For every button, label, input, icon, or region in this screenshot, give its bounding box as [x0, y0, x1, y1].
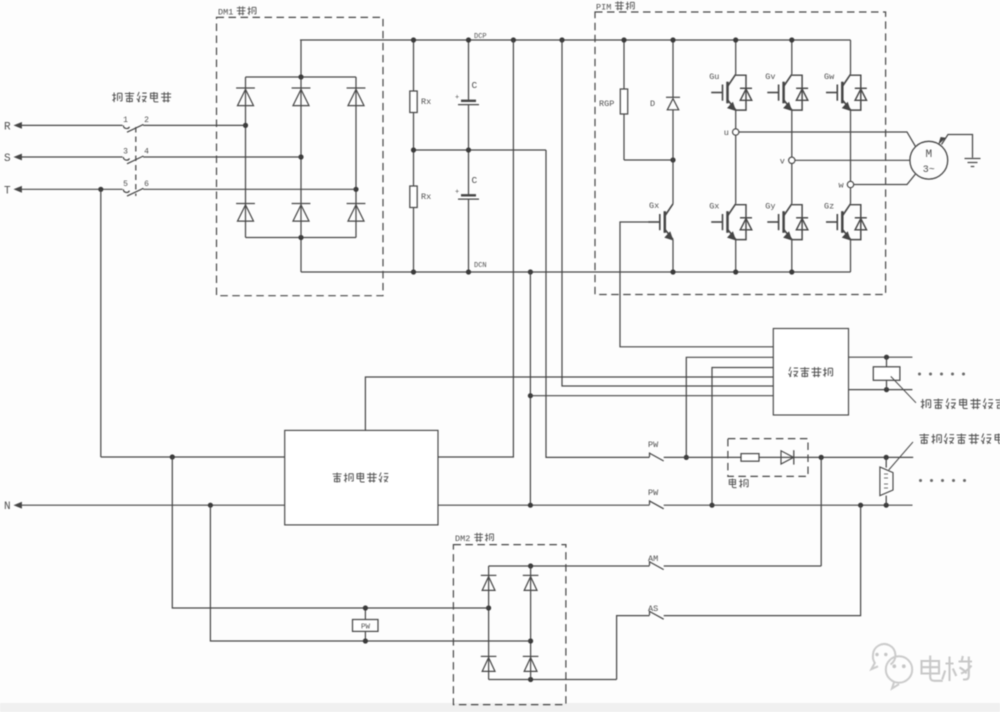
- label Rx2: [421, 192, 431, 202]
- label Gv: [765, 72, 775, 82]
- node N-AS junction: [858, 503, 863, 508]
- svg-text:AS: AS: [648, 604, 658, 614]
- node DCN-control junction: [528, 393, 533, 398]
- label w: [839, 181, 845, 191]
- wire control input 3: [712, 368, 773, 506]
- transistor Gz (lower): [826, 188, 867, 272]
- transistor Gy (lower): [767, 164, 808, 273]
- label PW2: [648, 488, 659, 498]
- switch PW1: [650, 452, 664, 461]
- node C-DCN: [466, 269, 471, 274]
- wire N line right segment: [664, 504, 913, 506]
- label machine-side-contactor-coil: [921, 399, 1000, 410]
- svg-text:5: 5: [123, 180, 128, 189]
- node RGP-DCP: [621, 37, 626, 42]
- svg-text:Gu: Gu: [709, 72, 719, 82]
- label Gy: [765, 202, 775, 212]
- node T input junction: [353, 187, 358, 192]
- label RGP: [599, 99, 614, 109]
- wire PW box stubs: [364, 608, 366, 641]
- precharge device box: [285, 430, 438, 525]
- node DCN tap: [528, 269, 533, 274]
- pointer to brake-coil label: [889, 442, 913, 470]
- svg-text:PW: PW: [361, 624, 371, 632]
- diode D14 (lower): [292, 204, 311, 222]
- svg-text:T: T: [4, 185, 11, 197]
- wire DM1 column 2: [300, 77, 302, 238]
- svg-text:3~: 3~: [923, 165, 935, 176]
- node Rx-DCP: [411, 37, 416, 42]
- label DM1-module: [218, 6, 256, 17]
- svg-text:+: +: [455, 189, 459, 197]
- label C1: [472, 80, 478, 91]
- svg-text:PIM: PIM: [596, 3, 611, 13]
- label AS: [648, 604, 658, 614]
- switch AS: [650, 611, 664, 620]
- wire DCN sense to N line: [529, 272, 531, 505]
- brake coil (additional brake coil): [880, 457, 893, 505]
- node Rx-mid: [411, 147, 416, 152]
- sensor PW box: [353, 620, 379, 632]
- ellipsis dots upper: [918, 373, 965, 376]
- transistor Gx (brake chopper): [649, 160, 674, 272]
- ellipsis dots lower: [919, 479, 966, 482]
- node PWbox-lower: [363, 638, 368, 643]
- diode D22 (lower): [481, 656, 497, 671]
- svg-text:DM1: DM1: [218, 8, 233, 18]
- node Gy-DCN: [789, 269, 794, 274]
- node precharge-DM2 tap: [170, 454, 175, 459]
- label M: [925, 149, 932, 161]
- wire control input 2: [686, 357, 773, 457]
- transistor Gw (upper): [826, 40, 867, 181]
- node N-DM2 tap: [208, 503, 213, 508]
- wire DM2 column 2: [530, 566, 532, 680]
- switch AM: [650, 561, 664, 570]
- wire AS line right: [664, 505, 861, 615]
- diode D15 (upper): [347, 88, 366, 106]
- node Gx-DCN: [733, 269, 738, 274]
- label DCP: [474, 33, 487, 41]
- label machine-side-contactor: [112, 92, 171, 102]
- svg-text:w: w: [839, 181, 845, 191]
- svg-text:PW: PW: [648, 488, 659, 498]
- svg-text:S: S: [4, 153, 11, 165]
- label contactor-number 4: [144, 148, 149, 157]
- wire DCP sense to precharge: [438, 40, 513, 457]
- wire DM1 column 3: [355, 77, 357, 238]
- svg-text:Rx: Rx: [421, 97, 431, 107]
- diode D21 (upper): [481, 575, 497, 590]
- label PW1: [648, 440, 659, 450]
- wire control input 4 to precharge: [365, 377, 773, 430]
- wire DM2 feed upper: [172, 457, 488, 608]
- svg-text:C: C: [472, 80, 478, 91]
- wire DM1 bottom rail: [246, 237, 357, 239]
- node DM1 bottom-mid junction: [298, 235, 303, 240]
- label 3~: [923, 165, 935, 176]
- svg-text:DM2: DM2: [455, 534, 470, 544]
- wire DC midpoint rail: [414, 149, 547, 151]
- label contactor-number 2: [144, 116, 149, 125]
- wire DCP bus: [300, 39, 851, 41]
- node S input junction: [298, 154, 303, 159]
- label D: [650, 99, 655, 109]
- svg-text:AM: AM: [648, 554, 658, 564]
- wire DM2 column 1: [488, 566, 490, 680]
- label N: [4, 501, 11, 513]
- module box PIM: [595, 12, 886, 295]
- svg-text:RGP: RGP: [599, 99, 614, 109]
- capacitor C1: [455, 40, 479, 150]
- node DM2 top junction: [528, 563, 533, 568]
- node N-DCN junction: [528, 503, 533, 508]
- label u: [724, 128, 729, 138]
- transistor Gu (upper): [711, 40, 752, 129]
- wire control input 6: [530, 395, 773, 397]
- wire DM2 feed lower: [210, 505, 530, 641]
- diode D12 (lower): [236, 204, 255, 222]
- node output v: [789, 157, 795, 163]
- node DM2 input-2: [528, 638, 533, 643]
- label v: [780, 156, 785, 166]
- label AM: [648, 554, 658, 564]
- node N-brakecoil junction: [884, 503, 889, 508]
- label precharge-device: [333, 473, 389, 483]
- wire T to precharge: [101, 456, 285, 458]
- label control-module: [788, 367, 832, 377]
- label DCN: [474, 262, 487, 270]
- node output u: [733, 129, 739, 135]
- node Gz-DCN: [0, 0, 1, 1]
- svg-text:Gz: Gz: [824, 202, 834, 212]
- svg-text:Gx: Gx: [649, 201, 659, 211]
- node N-control junction: [709, 503, 714, 508]
- label Gz: [824, 202, 834, 212]
- wire DM2 bottom bus: [489, 679, 617, 681]
- node DM2 bottom junction: [528, 677, 533, 682]
- svg-text:R: R: [4, 121, 11, 133]
- capacitor C2: [455, 150, 479, 272]
- diode D23 (upper): [523, 575, 539, 590]
- wire DM1 column 1: [245, 77, 247, 238]
- node Rx-DCN: [411, 269, 416, 274]
- relay coil KM (machine-side contactor coil): [873, 357, 900, 389]
- svg-text:PW: PW: [648, 440, 659, 450]
- svg-text:4: 4: [144, 148, 149, 157]
- node output w: [847, 181, 853, 187]
- diode D-brake: [781, 450, 794, 464]
- label brake-unit: [729, 479, 748, 488]
- resistor R-brake: [741, 454, 759, 462]
- svg-text:6: 6: [144, 180, 149, 189]
- node brakecoil-top junction: [884, 455, 889, 460]
- diode D16 (lower): [347, 204, 366, 222]
- label DM2-module: [455, 533, 493, 544]
- svg-text:M: M: [925, 149, 932, 161]
- label Gu: [709, 72, 719, 82]
- wire coil feed upper: [849, 356, 913, 358]
- motor M1 (3-phase): [910, 141, 948, 179]
- diode D24 (lower): [523, 656, 539, 671]
- wire phase S input line with arrow: [4, 153, 301, 165]
- wire AM line right: [664, 565, 822, 567]
- svg-text:1: 1: [123, 116, 128, 125]
- node Gw-DCP: [0, 0, 1, 1]
- watermark text dianti: [922, 656, 973, 682]
- node DM1 top-mid junction: [298, 74, 303, 79]
- node D-DCP: [670, 37, 675, 42]
- label C2: [472, 175, 478, 186]
- diode D11 (upper): [236, 88, 255, 106]
- wire DM1 riser to DCP: [300, 40, 302, 77]
- bottom tint strip: [0, 703, 1000, 712]
- label Gw: [824, 72, 835, 82]
- control module box: [773, 329, 848, 416]
- node DCP tap-1: [511, 37, 516, 42]
- wire AM riser: [820, 457, 822, 566]
- label Rx1: [421, 97, 431, 107]
- wire coil feed lower: [849, 389, 913, 391]
- node chopper junction: [670, 157, 675, 162]
- label Gx-brake: [649, 201, 659, 211]
- brake unit box (dashed): [728, 439, 808, 477]
- svg-text:N: N: [4, 501, 11, 513]
- wire N line with arrow: [14, 502, 650, 509]
- label PIM-module: [596, 1, 634, 12]
- ground (motor frame): [938, 135, 980, 167]
- svg-text:v: v: [780, 156, 785, 166]
- label Gx: [709, 202, 719, 212]
- wire T tap vertical to precharge: [100, 189, 102, 457]
- wire DM1 dropper to DCN: [300, 238, 302, 273]
- svg-text:Gv: Gv: [765, 72, 775, 82]
- label contactor-number 3: [123, 148, 128, 157]
- svg-text:DCP: DCP: [474, 33, 487, 41]
- wire phase R input line with arrow: [4, 121, 246, 133]
- wire phase u to motor: [739, 132, 915, 146]
- node brake emitter-DCN: [670, 269, 675, 274]
- svg-text:Gy: Gy: [765, 202, 775, 212]
- svg-text:DCN: DCN: [474, 262, 487, 270]
- svg-text:Rx: Rx: [421, 192, 431, 202]
- resistor RGP: [620, 40, 627, 160]
- svg-text:C: C: [472, 175, 478, 186]
- contactor mechanical link (dashed): [135, 127, 137, 196]
- node coil-lower junction: [884, 387, 889, 392]
- wire DCP sense to control: [562, 40, 773, 386]
- wire RGP to D junction: [624, 159, 673, 161]
- pointer to coil label: [891, 376, 916, 402]
- label additional-brake-coil: [919, 434, 1000, 445]
- switch PW2: [650, 500, 664, 509]
- label contactor-number 1: [123, 116, 128, 125]
- node C-mid: [466, 147, 471, 152]
- resistor Rx2: [410, 150, 417, 272]
- wire DM2 top bus: [489, 565, 566, 567]
- label contactor-number 6: [144, 180, 149, 189]
- label contactor-number 5: [123, 180, 128, 189]
- svg-text:+: +: [455, 94, 459, 102]
- node R input junction: [243, 123, 248, 128]
- wire phase w to motor: [854, 174, 916, 184]
- node brake-AM junction: [819, 455, 824, 460]
- node PW1-control junction: [684, 455, 689, 460]
- watermark wechat icon: [871, 644, 912, 688]
- wire brake line after PW1: [664, 456, 914, 458]
- svg-text:Gw: Gw: [824, 72, 835, 82]
- node DCP tap-2: [559, 37, 564, 42]
- resistor Rx1: [410, 40, 417, 150]
- wire phase v to motor: [795, 159, 910, 161]
- svg-text:2: 2: [144, 116, 149, 125]
- node DM2 input-1: [486, 605, 491, 610]
- node coil-upper junction: [884, 355, 889, 360]
- node Gu-DCP: [733, 37, 738, 42]
- svg-text:3: 3: [123, 148, 128, 157]
- wire brake gate vertical: [620, 222, 773, 347]
- diode D13 (upper): [292, 88, 311, 106]
- svg-text:u: u: [724, 128, 729, 138]
- module box DM2: [453, 545, 566, 705]
- wire midpoint sense vertical: [546, 150, 650, 457]
- diode D (brake): [666, 40, 680, 160]
- node C-DCP: [466, 37, 471, 42]
- svg-text:Gx: Gx: [709, 202, 719, 212]
- wire DCN bus: [301, 271, 851, 273]
- svg-text:D: D: [650, 99, 655, 109]
- module box DM1: [217, 17, 384, 295]
- node Gv-DCP: [789, 37, 794, 42]
- node PWbox-upper: [363, 605, 368, 610]
- wire AM line: [566, 565, 650, 567]
- transistor Gv (upper): [767, 40, 808, 157]
- node T tap junction: [98, 187, 103, 192]
- wire AS line: [617, 616, 650, 680]
- transistor Gx (lower): [711, 135, 752, 272]
- wire DM1 top rail: [246, 76, 357, 78]
- wire phase T input line with arrow: [4, 185, 356, 197]
